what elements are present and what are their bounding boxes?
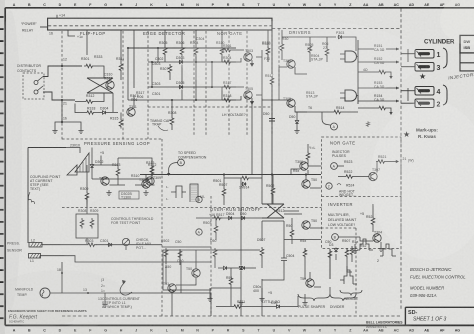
wire pot arrow down to rail: [125, 246, 127, 250]
dwell info box (cut at right edge): [460, 35, 474, 53]
ground bottom field 2: [259, 296, 264, 302]
border frame left: [4, 8, 6, 326]
sawtooth waveform small: [67, 165, 77, 175]
grid reference ticks left margin: [0, 17, 4, 318]
wire x=92 drop through D302: [92, 148, 152, 180]
pressure sensing loop dashed box top: [62, 138, 162, 140]
bottom rail y=250 partial: [163, 249, 260, 251]
wire x=158 connector: [157, 48, 159, 62]
transistor T304 driver: [287, 60, 295, 68]
circled node B inverter: [332, 234, 339, 241]
resistor pair R308/R309 threshold: [76, 214, 98, 238]
wire pin16 drop with +1c label: [68, 30, 75, 36]
wire row y=288: [211, 287, 241, 289]
grid reference letters top: [13, 3, 461, 7]
junction dots mid rail: [151, 173, 307, 175]
resistor stub down from temp wire: [104, 293, 106, 302]
injector cylinder 2: [415, 99, 434, 108]
edge detector bottom dashed: [148, 106, 272, 108]
ground under T303: [106, 190, 111, 196]
wire injector 1 feed: [358, 48, 399, 50]
over-run shutoff dashed boundary: [62, 207, 322, 209]
driver AND gate 2: [345, 90, 357, 101]
dwell box lower compartments: [460, 53, 474, 71]
diode P303: [338, 35, 343, 38]
contact switch lower: [34, 90, 38, 94]
wire x=241 into chain row: [240, 178, 242, 221]
brace divider: [330, 294, 356, 301]
sawtooth waveform large: [75, 153, 89, 172]
wire x=252 from edge-det to rail: [251, 104, 253, 175]
wire injector 3 feed: [358, 61, 399, 63]
power relay supply box: [48, 18, 272, 30]
ground bottom field 1: [207, 296, 212, 302]
transistor T311: [127, 108, 135, 116]
diode D511 bottom row: [276, 305, 281, 308]
border frame bottom: [5, 324, 474, 326]
circled node left overrun 2: [196, 229, 202, 235]
ground under T309: [143, 190, 148, 196]
driver AND gate symbol: [345, 51, 357, 62]
wire to injector 2: [401, 102, 415, 104]
transistor T50a bottom: [192, 269, 200, 277]
chain row extension to x=284: [262, 220, 284, 222]
grid reference letters bottom: [13, 329, 461, 333]
wire driver output bus down: [357, 40, 359, 104]
bracket grouping injectors 1,3: [443, 48, 447, 68]
brace widget: [340, 290, 362, 296]
vertical dashed x=148: [147, 31, 149, 139]
grounds bottom extra: [238, 300, 243, 306]
transistor T305 mid: [142, 180, 150, 188]
vertical wire x=284 down: [262, 221, 284, 280]
transistor T50b bottom: [306, 279, 314, 287]
contact switch upper: [34, 81, 38, 85]
wire stub connecting injector pair 4-2: [407, 88, 409, 101]
vertical dashed boundary x=247: [246, 31, 248, 135]
diode D505: [241, 216, 246, 219]
vertical dashed boundary x=211 mid: [210, 196, 212, 316]
wire row y=272 right: [310, 272, 321, 287]
wire y=239.5 to NOR box: [284, 239, 321, 241]
resistor above T306: [306, 151, 310, 162]
wire x=182 connector: [181, 65, 183, 101]
wire x=262 long vertical: [261, 100, 263, 204]
brace pulse shaper: [298, 294, 330, 301]
title block box: [405, 307, 474, 325]
wire flip-flop outputs up: [113, 30, 134, 112]
vertical dashed x=206: [205, 31, 207, 135]
ground marks inverter: [352, 248, 357, 254]
diode on x=241: [239, 266, 242, 271]
distributor contacts dashed box: [23, 73, 44, 99]
junction arrow inj1: [396, 48, 399, 51]
wire L2 to circuit: [42, 244, 162, 246]
wire x=272 into overrun crossover: [271, 175, 273, 205]
bracket grouping injectors 4,2: [443, 85, 447, 105]
wire power box corner down x=273: [271, 30, 273, 122]
wire bottom rail y=247: [162, 246, 211, 248]
loop wiring mesh: [87, 158, 155, 207]
transistor T307: [369, 172, 377, 180]
dropper resistor 2nd + arrow: [377, 106, 388, 110]
dashed divider between NOR gate and inverter: [322, 196, 402, 198]
capacitor C504 vertical: [281, 252, 287, 268]
annotation curve arrow: [120, 282, 132, 295]
junction dots edge detector: [127, 47, 213, 101]
wire mid vertical x=180 down: [179, 250, 181, 262]
injector cylinder 4: [415, 87, 434, 96]
wire injector 2 feed: [358, 100, 399, 102]
node +14 tick on power box: [56, 15, 58, 18]
waveform sketch B right-bottom: [380, 244, 396, 256]
waveform sketch A right-bottom: [357, 239, 373, 250]
wire x=222 stub: [221, 57, 223, 101]
wire lower contact to node 21 rail y=100: [43, 92, 75, 100]
wire to injector 4: [401, 90, 415, 92]
resistor R323 vertical right: [266, 46, 270, 57]
circled node A nor gate: [331, 163, 338, 170]
transistor T301: [106, 81, 114, 89]
transistor T304 inverter: [373, 234, 381, 242]
second driver transistor T305d: [287, 99, 295, 107]
transistor T305 (edge det out 2): [244, 91, 252, 99]
diode row mid bottom: [223, 266, 228, 269]
wire power relay to box: [40, 26, 48, 28]
arrow from circle to wire: [169, 163, 178, 175]
wire x=152 connector: [151, 62, 153, 87]
wire x=272 continues to mid rail: [271, 122, 273, 175]
circled node 2 nor: [326, 183, 332, 189]
transistor T504 overrun right lower: [302, 221, 310, 229]
wire to injector 1: [401, 53, 415, 55]
resistor R506 vertical overrun: [214, 224, 218, 235]
wires overrun to bottom x=305,330: [305, 248, 352, 296]
squiggle arrow coupling: [28, 192, 34, 204]
flip-flop crossover transistor T301: [87, 78, 113, 93]
diode D301 on L2 wire: [108, 243, 113, 246]
wire L1 to circuit: [41, 256, 181, 262]
wire into loop y=147.5 with label 23010: [28, 147, 66, 149]
injector cylinder 1: [415, 50, 434, 59]
dashed boundary top of drivers block: [272, 27, 401, 29]
NOR/inverter block dashed box: [322, 137, 402, 249]
resistor R3x right-bottom: [350, 246, 354, 257]
vertical dashed edge of drivers block x=279: [278, 28, 280, 86]
crossover X in over-run: [262, 204, 284, 218]
long rail y=175: [140, 174, 321, 176]
pulse waveform glyph 2 (hatched): [190, 184, 198, 202]
injector cylinder 3: [415, 63, 434, 72]
wire x=212 connector: [211, 62, 213, 87]
diode D3 right-bottom: [334, 248, 337, 253]
boxed label D302B T1300: [119, 191, 139, 199]
wire left column x=128: [127, 48, 129, 100]
transistor T511 bottom-left of field: [168, 284, 176, 292]
wire from edge detector into drivers: [262, 67, 291, 100]
wires T306 to NOR block: [291, 166, 322, 174]
wire to injector 3: [401, 66, 415, 68]
wire loop top entry: [66, 148, 80, 154]
edge detector top rail: [128, 47, 236, 49]
border frame top: [5, 7, 474, 9]
diode D304: [102, 111, 107, 114]
resistor R311: [119, 62, 123, 73]
wire connector x=181 y262-293: [180, 262, 182, 293]
wire injector 4 feed: [358, 87, 399, 89]
vertical wires bottom field: [166, 250, 347, 279]
wire drivers top rail: [282, 36, 336, 38]
bottom long dashed boundary: [62, 315, 401, 317]
wire temp sensor right: [50, 292, 180, 294]
second row rails: [128, 87, 236, 100]
long vertical dashed separator x=401: [400, 9, 402, 311]
wire frame x=163 box in bottom-left of overrun: [163, 250, 211, 290]
pulse waveform glyph right-bottom: [340, 270, 357, 284]
circled node B speed comp: [178, 159, 185, 166]
wire upper contact to node 12 rail y=66: [43, 66, 82, 77]
manifold temp sensor circle: [40, 288, 50, 298]
ground symbol left: [52, 128, 57, 134]
rail mid edge detector: [148, 61, 236, 63]
wire temp rail to x211: [180, 293, 211, 316]
circled node left overrun: [196, 196, 202, 202]
transistor T303 loop: [101, 177, 109, 185]
circled node A above NOR block: [331, 123, 338, 130]
output arrow node 21(w): [396, 160, 399, 163]
transistor T306: [300, 162, 308, 170]
wire x=196 connector: [195, 57, 197, 101]
vertical dashed x=272 lower: [271, 30, 273, 135]
vertical dashed boundary x=162 (left of mid area): [161, 139, 163, 316]
wire T303 collector to drivers: [256, 50, 262, 100]
ground symbol right: [78, 128, 83, 134]
wire node18: [61, 262, 63, 293]
wire overrun rail y=218: [196, 217, 262, 219]
circled pot T: [122, 238, 129, 245]
wire left riser x=28 (coupling): [27, 148, 29, 244]
resistor R303 on L2 wire: [86, 243, 97, 247]
transistor T303 (edge det out): [244, 53, 252, 61]
transistor T503 overrun right: [302, 180, 310, 188]
vertical wire x=262 down: [261, 221, 263, 316]
resistor R503 chain: [212, 216, 223, 220]
dashed bus line under power box: [48, 25, 272, 27]
dashed boundary bottom-right block: [321, 228, 356, 315]
left vertical dashed boundary x=62: [61, 31, 63, 140]
ground under D50x: [294, 128, 299, 134]
vertical dashed x=194: [193, 31, 195, 135]
wire stub connecting injector pair 1-3: [407, 49, 409, 62]
transistor T309 loop: [146, 177, 154, 185]
vertical dashed x=229: [228, 31, 230, 135]
diode D302 vertical: [90, 164, 93, 169]
vertical wire x=241 down: [240, 221, 242, 316]
vertical dashed boundary x=123: [122, 31, 124, 139]
diode D301 1N914: [242, 182, 247, 185]
pulse waveform glyph 1: [171, 186, 186, 198]
wire into circled A: [322, 112, 331, 125]
wire y=262 continuation to overrun: [180, 261, 211, 263]
diode D504: [228, 216, 233, 219]
